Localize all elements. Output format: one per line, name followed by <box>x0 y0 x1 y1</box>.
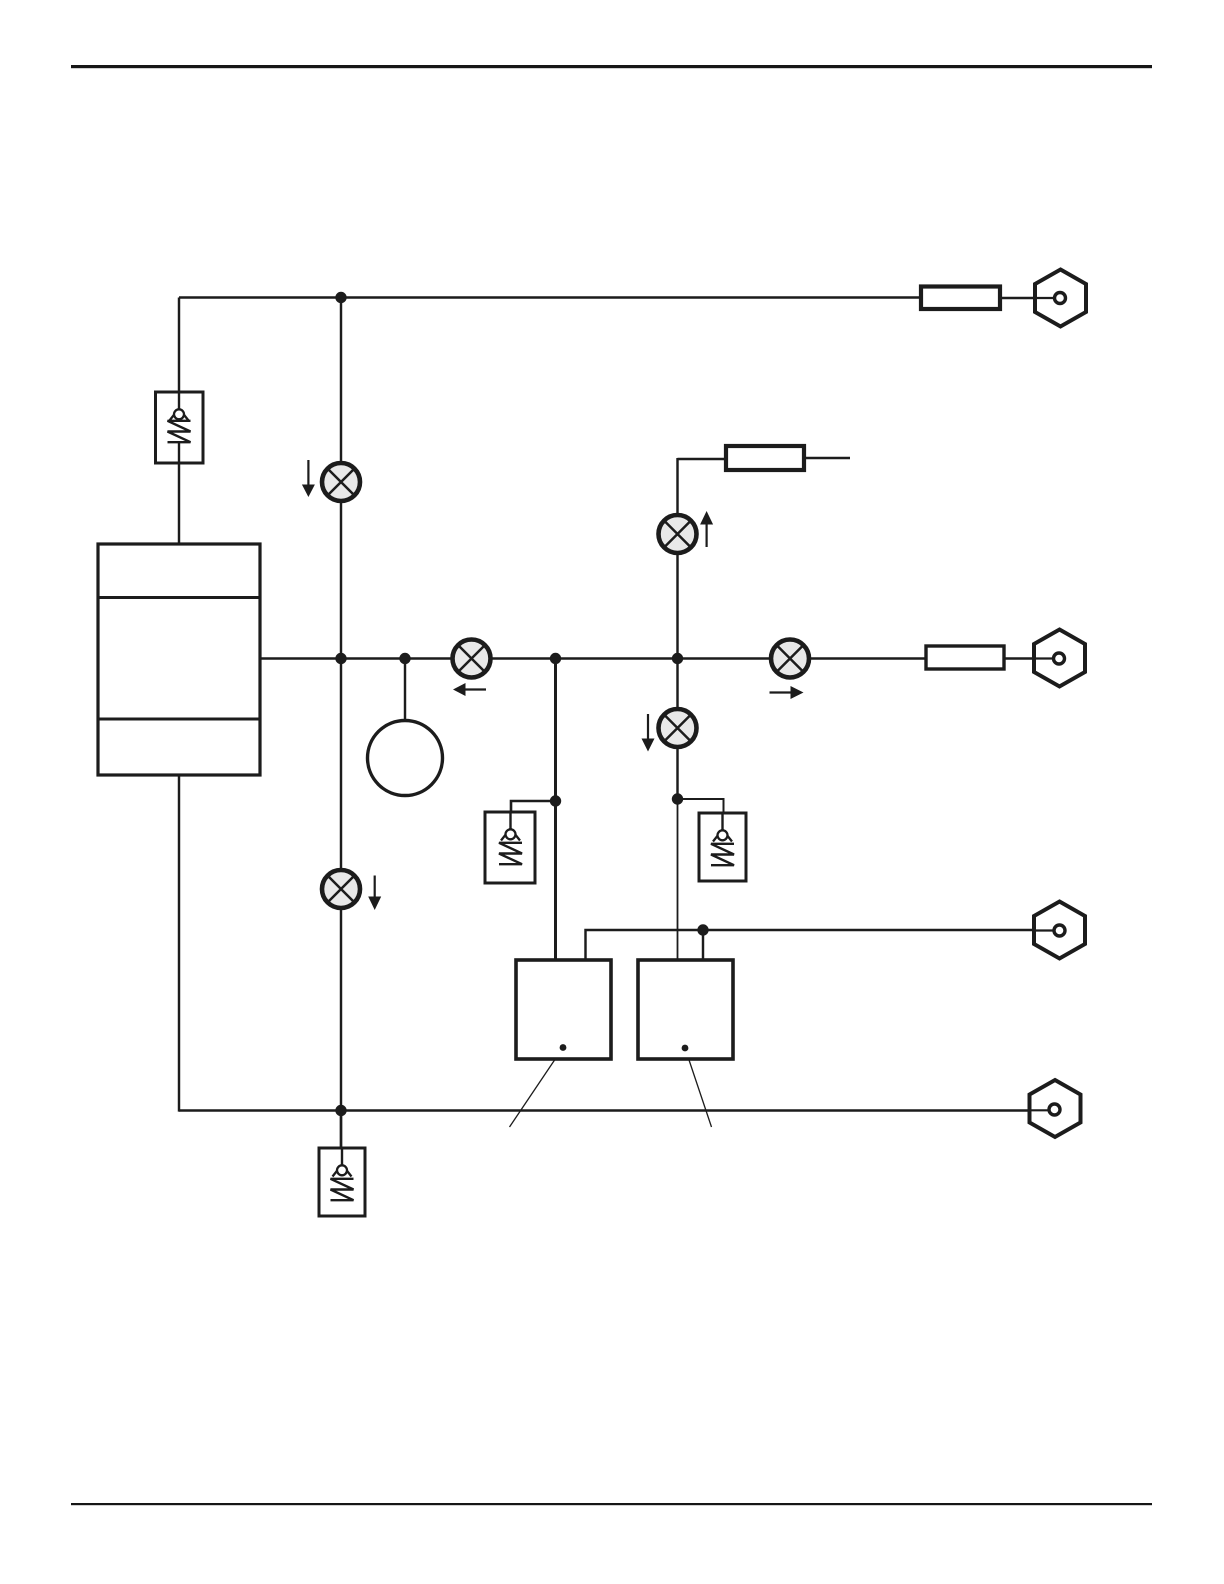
filter F1 <box>726 446 804 470</box>
footer rule <box>71 1503 1152 1505</box>
wire center riser x341 upper <box>340 298 342 660</box>
arrow A4 right <box>770 686 804 699</box>
relief valve S2 <box>485 812 535 883</box>
wire corner to filter F1 <box>678 458 727 460</box>
junction S3 tap <box>672 793 683 804</box>
wire filter to port P1 <box>1000 297 1058 299</box>
junction branch x677 <box>672 653 683 664</box>
leader line left square <box>510 1048 564 1128</box>
valve V1 <box>322 463 360 501</box>
valve V2 <box>453 640 491 678</box>
junction main line x341 <box>335 653 346 664</box>
tank unit <box>98 544 260 775</box>
valve V3 <box>659 515 697 553</box>
wire center riser x341 lower <box>340 659 342 1151</box>
wire branch riser x555 <box>554 659 557 961</box>
callout dot left square <box>560 1044 567 1051</box>
filter F2 <box>921 287 1000 310</box>
wire top horizontal bus <box>179 296 921 298</box>
relief valve S4 <box>319 1148 365 1216</box>
junction at top bus <box>335 292 346 303</box>
arrow A1 down <box>302 460 315 497</box>
wire main horizontal line <box>260 657 928 660</box>
wire gauge stem <box>404 659 406 723</box>
pump box left <box>516 960 611 1059</box>
arrow A6 down <box>368 876 381 911</box>
wire feed to relief valve S3 <box>678 799 724 814</box>
wire feed to relief valve S2 <box>511 801 556 814</box>
valve V5 <box>659 709 697 747</box>
wire left riser to relief valve S1 <box>178 298 180 395</box>
junction branch x555 <box>550 653 561 664</box>
junction step line <box>697 924 708 935</box>
gauge <box>368 721 443 796</box>
valve V6 <box>322 870 360 908</box>
relief valve S3 <box>699 813 746 881</box>
junction S2 tap <box>550 795 561 806</box>
port P1 <box>1035 270 1086 327</box>
arrow A2 left <box>453 683 486 696</box>
wire to bottom relief valve S4 <box>340 1111 342 1151</box>
wire branch riser x677 lower <box>676 659 678 800</box>
pump box right <box>638 960 733 1059</box>
junction bottom line <box>335 1105 346 1116</box>
filter F3 <box>926 646 1004 669</box>
wire bottom long line to port P4 <box>179 1109 1052 1111</box>
port P2 <box>1034 630 1085 687</box>
wire branch riser x677 to pump box <box>677 799 679 960</box>
port P4 <box>1030 1080 1081 1137</box>
relief valve S1 <box>156 392 204 463</box>
header rule <box>71 65 1152 68</box>
wire filter F3 to port P2 <box>1004 657 1057 659</box>
wire relief valve S1 to tank <box>178 461 180 546</box>
wire stub junction to right square <box>702 930 704 960</box>
wire branch riser x677 upper <box>676 458 678 659</box>
arrow A3 up <box>700 511 713 547</box>
valve V4 <box>771 640 809 678</box>
arrow A5 down <box>642 714 655 752</box>
wire step line from left square to port P3 <box>586 930 1058 960</box>
leader line right square <box>685 1048 712 1127</box>
wire filter F1 outlet stub <box>804 457 850 459</box>
junction gauge tap <box>399 653 410 664</box>
callout dot right square <box>682 1045 689 1052</box>
wire tank bottom to corner <box>178 775 180 1112</box>
port P3 <box>1034 902 1085 959</box>
